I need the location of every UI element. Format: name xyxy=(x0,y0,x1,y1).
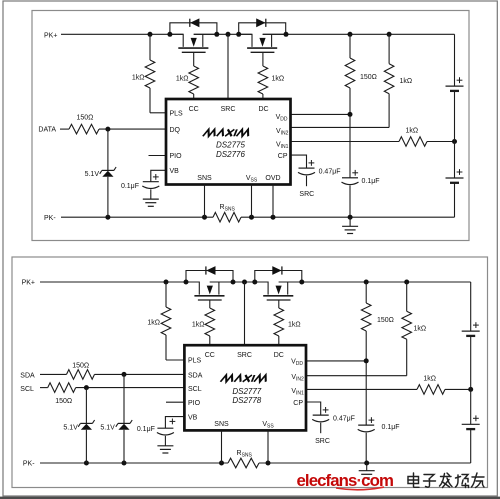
svg-text:0.1μF: 0.1μF xyxy=(362,178,380,185)
plus sign C2 xyxy=(309,162,315,164)
svg-text:PK-: PK- xyxy=(23,461,35,468)
svg-text:SCL: SCL xyxy=(188,386,202,393)
plus sign C4 xyxy=(369,419,375,421)
body diode of Q4 xyxy=(255,266,302,282)
wire VB to C6 (bottom) xyxy=(165,417,184,428)
svg-text:SRC: SRC xyxy=(237,352,252,359)
svg-text:SDA: SDA xyxy=(20,373,35,380)
junction dot VIN1-battery xyxy=(452,139,457,144)
svg-text:SNS: SNS xyxy=(197,175,212,182)
resistor R5 1k column to VIN2 xyxy=(384,34,394,127)
svg-text:0.47μF: 0.47μF xyxy=(333,415,355,422)
battery B3 top cell (bottom) xyxy=(462,282,480,389)
U2 MAXIM logo xyxy=(220,375,268,382)
top circuit border box xyxy=(32,11,469,241)
svg-text:PK-: PK- xyxy=(44,215,56,222)
U1 pin labels right xyxy=(276,114,289,160)
svg-text:SDA: SDA xyxy=(188,373,203,380)
plus sign B3 xyxy=(473,324,479,326)
capacitor C5 0.47uF (bottom) xyxy=(312,415,329,433)
svg-text:1kΩ: 1kΩ xyxy=(288,322,301,329)
zener diode Z1 5.1V xyxy=(100,129,116,217)
wire PK+ rail segment 2 (bottom) xyxy=(210,281,268,283)
wire CP to C5 (bottom) xyxy=(306,402,321,415)
svg-text:CC: CC xyxy=(205,352,215,359)
resistor R10 1k gate CC (bottom) xyxy=(205,300,215,345)
svg-text:1kΩ: 1kΩ xyxy=(176,76,189,83)
U2 pin labels right xyxy=(291,359,304,408)
resistor R2 1k gate CC xyxy=(189,52,199,99)
watermark chinese char 4 (shao) xyxy=(456,475,469,488)
wire PK+ rail segment 3 xyxy=(263,33,455,35)
plus sign B1 xyxy=(457,79,463,81)
svg-text:1kΩ: 1kΩ xyxy=(132,75,145,82)
wire VIN2 xyxy=(291,126,390,128)
plus sign B4 xyxy=(473,417,479,419)
wire PK+ rail segment 3 (bottom) xyxy=(279,281,471,283)
U1 pin labels bottom xyxy=(197,175,280,184)
U2 pin labels bottom xyxy=(214,421,274,430)
capacitor C4 0.1uF (VDD decoupling, bottom) xyxy=(358,425,375,463)
svg-text:150Ω: 150Ω xyxy=(377,317,394,324)
resistor R7 RSNS sense xyxy=(213,212,241,222)
svg-text:150Ω: 150Ω xyxy=(77,115,94,122)
wire VB to C3 xyxy=(151,170,166,181)
junction dot VDD (bottom) xyxy=(364,358,369,363)
svg-text:SNS: SNS xyxy=(214,421,229,428)
zener diode Z2 5.1V xyxy=(78,388,94,463)
wire VIN2 (bottom) xyxy=(306,375,407,377)
junction dots on PK+ rail (bottom) xyxy=(164,280,410,285)
U2 pin labels top xyxy=(205,352,284,359)
wire DATA + resistor R8 150 xyxy=(60,124,166,134)
wire VIN1 + resistor R14 1k (bottom) xyxy=(306,385,471,395)
svg-text:DC: DC xyxy=(274,352,284,359)
ground symbol under PK- rail xyxy=(342,217,358,233)
junction dots on PK- rail xyxy=(105,215,352,220)
svg-text:PIO: PIO xyxy=(188,400,201,407)
svg-text:PK+: PK+ xyxy=(22,280,35,287)
wire SDA + resistor R16 150 xyxy=(40,370,184,380)
junction dot DATA xyxy=(105,127,110,132)
ground symbol under PK- rail (bottom) xyxy=(359,463,375,478)
svg-text:0.1μF: 0.1μF xyxy=(121,183,139,190)
plus sign C1 xyxy=(352,172,358,174)
wire PK- rail right part (bottom) xyxy=(259,462,471,464)
resistor R1 1k to PLS xyxy=(145,34,166,113)
svg-text:0.1μF: 0.1μF xyxy=(382,424,400,431)
U1 pin labels left xyxy=(170,111,184,176)
svg-text:elecfans·com: elecfans·com xyxy=(297,471,393,490)
capacitor C3 0.1uF on VB xyxy=(142,182,159,199)
bottom dark bar xyxy=(0,497,500,499)
wire SCL + resistor R17 150 xyxy=(40,383,184,393)
body diode of Q2 xyxy=(239,18,286,34)
junction dot VDD xyxy=(348,112,353,117)
wire VDD to 150 column xyxy=(291,113,351,115)
wire OVD pin down xyxy=(272,185,274,218)
pin stub PIO (bottom) xyxy=(166,401,184,403)
svg-text:RSNS: RSNS xyxy=(237,450,253,459)
U1 MAXIM logo xyxy=(203,129,251,136)
svg-text:SRC: SRC xyxy=(315,438,330,445)
wire SNS pin down xyxy=(204,185,206,218)
svg-text:VB: VB xyxy=(170,168,180,175)
svg-text:1kΩ: 1kΩ xyxy=(147,320,160,327)
svg-text:SRC: SRC xyxy=(221,106,236,113)
wire SRC column (bottom) xyxy=(244,282,246,345)
watermark chinese char 3 (fa) xyxy=(440,473,453,488)
svg-text:0.47μF: 0.47μF xyxy=(319,168,341,175)
junction dot SDA xyxy=(122,372,127,377)
ground symbol under C3 xyxy=(143,199,159,206)
svg-text:PK+: PK+ xyxy=(44,32,57,39)
plus sign C3 xyxy=(153,176,159,178)
wire SRC column xyxy=(227,34,229,99)
wire VSS pin down (bottom) xyxy=(267,430,269,463)
svg-text:CP: CP xyxy=(278,153,288,160)
U1 part numbers xyxy=(216,141,245,160)
resistor R11 1k gate DC (bottom) xyxy=(274,300,284,345)
battery B1 top cell xyxy=(446,34,464,141)
U2 part numbers xyxy=(232,387,261,405)
svg-text:CP: CP xyxy=(293,400,303,407)
battery B4 bottom cell (bottom) xyxy=(462,389,480,463)
resistor R3 1k gate DC xyxy=(258,52,268,99)
svg-text:1kΩ: 1kΩ xyxy=(272,76,285,83)
svg-text:150Ω: 150Ω xyxy=(360,74,377,81)
transistor Q1 (charge FET) xyxy=(170,34,217,52)
transistor Q4 (discharge FET) xyxy=(255,282,302,300)
svg-text:DS2776: DS2776 xyxy=(216,150,245,159)
junction dots on PK- rail (bottom) xyxy=(84,461,369,466)
svg-text:DATA: DATA xyxy=(38,127,56,134)
plus sign B2 xyxy=(457,171,463,173)
resistor R15 RSNS sense (bottom) xyxy=(228,458,259,468)
svg-text:1kΩ: 1kΩ xyxy=(400,78,413,85)
svg-text:OVD: OVD xyxy=(265,175,280,182)
svg-text:5.1V: 5.1V xyxy=(85,171,100,178)
junction dot VIN1-battery (bottom) xyxy=(468,387,473,392)
battery B2 bottom cell xyxy=(446,142,464,218)
pin stub PIO xyxy=(149,155,167,157)
svg-text:1kΩ: 1kΩ xyxy=(192,322,205,329)
ground symbol under C6 xyxy=(157,446,173,453)
wire PK+ rail segment 1 xyxy=(61,33,183,35)
wire CP to C2 xyxy=(291,155,307,168)
plus sign C6 xyxy=(170,420,176,422)
svg-text:DS2777: DS2777 xyxy=(232,387,261,396)
op-amp U2 DS2777/DS2778 IC body xyxy=(184,345,306,430)
svg-text:DC: DC xyxy=(258,106,268,113)
wire SNS pin down (bottom) xyxy=(221,430,223,463)
wire PK- rail left part (bottom) xyxy=(40,462,228,464)
svg-text:PIO: PIO xyxy=(170,153,183,160)
body diode of Q1 xyxy=(170,18,217,34)
wire VIN1 + resistor R6 1k xyxy=(291,137,455,147)
wire PK- rail right part xyxy=(241,216,455,218)
body diode of Q3 xyxy=(186,266,233,282)
watermark underline swoosh xyxy=(336,487,384,490)
capacitor C6 0.1uF on VB (bottom) xyxy=(157,428,174,446)
svg-text:5.1V: 5.1V xyxy=(100,424,115,431)
svg-text:DS2778: DS2778 xyxy=(232,396,261,405)
svg-text:150Ω: 150Ω xyxy=(55,398,72,405)
svg-text:DQ: DQ xyxy=(170,127,181,134)
svg-text:VB: VB xyxy=(188,414,198,421)
wire VDD to 150 column (bottom) xyxy=(306,360,366,362)
wire PK- rail left part xyxy=(61,216,213,218)
svg-text:1kΩ: 1kΩ xyxy=(406,128,419,135)
junction dot SCL xyxy=(84,385,89,390)
watermark chinese char 2 (zi) xyxy=(424,475,436,488)
svg-text:DS2775: DS2775 xyxy=(216,141,245,150)
svg-text:1kΩ: 1kΩ xyxy=(414,326,427,333)
resistor R9 1k to PLS (bottom) xyxy=(161,282,184,360)
wire PK+ rail segment 2 xyxy=(194,33,252,35)
svg-text:PLS: PLS xyxy=(170,111,184,118)
transistor Q3 (charge FET) xyxy=(186,282,233,300)
U1 pin labels top xyxy=(189,106,269,113)
watermark chinese char 5 (you) xyxy=(472,473,485,488)
svg-text:SCL: SCL xyxy=(20,386,34,393)
resistor R13 1k column to VIN2 (bottom) xyxy=(402,282,412,376)
op-amp U1 DS2775/DS2776 IC body xyxy=(166,99,291,185)
svg-text:5.1V: 5.1V xyxy=(63,424,78,431)
svg-text:150Ω: 150Ω xyxy=(72,363,89,370)
bottom circuit border box xyxy=(12,257,488,488)
resistor R4 150 column xyxy=(345,34,355,177)
svg-text:PLS: PLS xyxy=(188,358,202,365)
junction dots on PK+ rail xyxy=(148,32,392,37)
U2 pin labels left xyxy=(188,358,203,422)
svg-text:1kΩ: 1kΩ xyxy=(423,376,436,383)
wire VSS pin down xyxy=(251,185,253,218)
transistor Q2 (discharge FET) xyxy=(239,34,286,52)
resistor R12 150 column (bottom) xyxy=(361,282,371,425)
capacitor C2 0.47uF xyxy=(298,168,315,186)
plus sign C5 xyxy=(323,409,329,411)
watermark chinese char 1 (dian) xyxy=(408,473,419,487)
svg-text:RSNS: RSNS xyxy=(220,204,236,213)
svg-text:0.1μF: 0.1μF xyxy=(137,426,155,433)
svg-text:SRC: SRC xyxy=(299,191,314,198)
capacitor C1 0.1uF (VDD decoupling) xyxy=(342,178,359,217)
zener diode Z3 5.1V xyxy=(116,374,132,463)
svg-text:CC: CC xyxy=(189,106,199,113)
wire PK+ rail segment 1 (bottom) xyxy=(40,281,199,283)
